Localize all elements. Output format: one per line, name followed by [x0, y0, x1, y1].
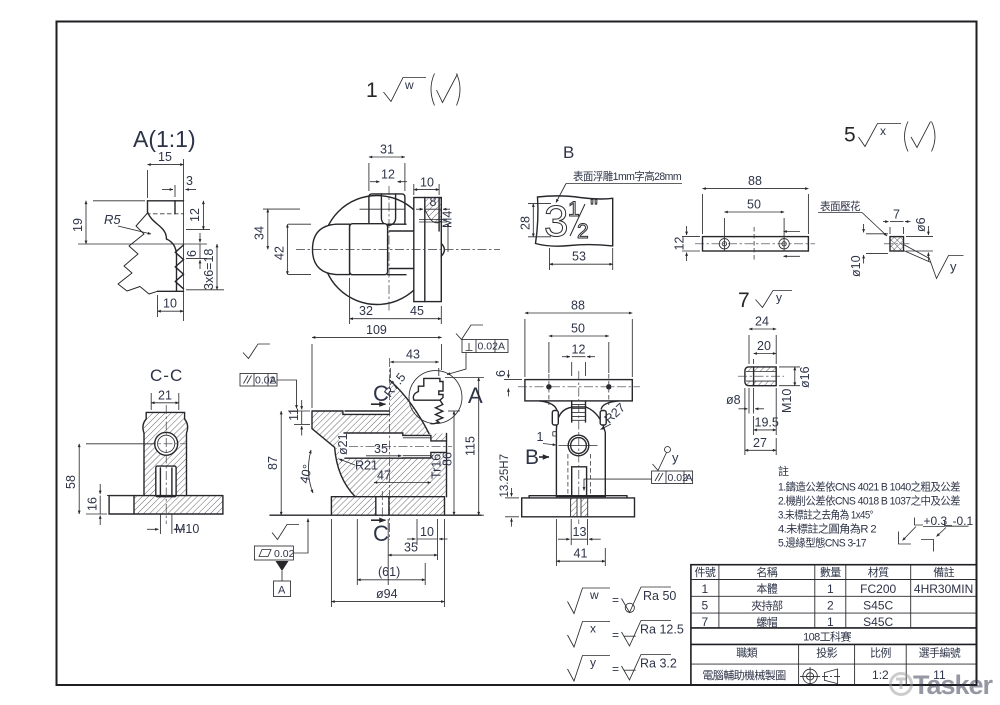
- svg-text:=: =: [612, 628, 619, 642]
- dim 35 bottom: [387, 519, 389, 585]
- svg-text:19.5: 19.5: [755, 416, 779, 430]
- slot: [381, 194, 395, 225]
- right plate: [414, 198, 442, 302]
- svg-text:1: 1: [702, 582, 709, 596]
- flag perpendicular right: [456, 325, 483, 340]
- dim 11: [294, 423, 310, 425]
- svg-text:ø16: ø16: [798, 366, 812, 388]
- svg-text:y: y: [590, 656, 596, 670]
- dim 31: [368, 163, 370, 191]
- dim 42: [288, 223, 311, 225]
- detail circle A: [409, 371, 462, 424]
- part profile: [118, 201, 184, 294]
- flange: [270, 497, 481, 516]
- svg-text:M10: M10: [175, 522, 199, 536]
- svg-text:本體: 本體: [756, 582, 777, 596]
- flange hatch: [134, 496, 223, 514]
- dim 10: [413, 184, 415, 195]
- hatched strips in flange center: [571, 498, 577, 517]
- dim 16: [107, 495, 131, 497]
- svg-text:-0.1: -0.1: [953, 514, 974, 528]
- dim 3: [174, 185, 176, 197]
- outline: [143, 412, 188, 495]
- svg-text:Ra 12.5: Ra 12.5: [640, 623, 684, 637]
- dim 8: [416, 208, 423, 210]
- svg-text:35: 35: [374, 442, 388, 456]
- svg-text:ø6: ø6: [914, 217, 928, 232]
- svg-text:夾持部: 夾持部: [751, 598, 783, 612]
- svg-text:1: 1: [827, 615, 834, 629]
- svg-text:8: 8: [430, 195, 437, 209]
- svg-text:ø94: ø94: [376, 587, 398, 601]
- svg-text:11: 11: [287, 408, 301, 421]
- svg-text:FC200: FC200: [860, 582, 896, 596]
- centerlines: [165, 405, 167, 524]
- side bump: [441, 244, 444, 257]
- dim ø8: [748, 388, 750, 414]
- svg-text:10: 10: [420, 176, 434, 190]
- svg-text:27: 27: [753, 436, 767, 450]
- 35 mid: [366, 455, 402, 457]
- svg-text:5: 5: [844, 124, 856, 147]
- centerline: [296, 249, 500, 251]
- slot: [572, 467, 587, 496]
- svg-text:+0.3: +0.3: [924, 514, 948, 528]
- flag parallel right: [653, 453, 667, 471]
- svg-text:12: 12: [381, 168, 395, 182]
- svg-text:x: x: [590, 622, 596, 636]
- 40 deg: [308, 450, 313, 493]
- dim 12: [186, 229, 210, 231]
- M4 leader lines: [419, 219, 447, 221]
- svg-text:7: 7: [738, 289, 750, 312]
- svg-text:2: 2: [827, 599, 834, 613]
- dim 28: [528, 203, 551, 205]
- dim 43: [389, 368, 391, 378]
- svg-text:(61): (61): [378, 565, 400, 579]
- boss body: [556, 407, 605, 497]
- svg-text:A: A: [498, 341, 505, 353]
- dim 10 bottom: [416, 519, 418, 545]
- svg-text:0.02: 0.02: [478, 341, 499, 353]
- svg-text:12: 12: [188, 208, 202, 222]
- svg-text:86: 86: [441, 452, 455, 466]
- flag parallel left: [243, 344, 270, 359]
- svg-text:y: y: [950, 259, 957, 274]
- bore outline: [344, 433, 447, 458]
- vertical centerline: [578, 371, 580, 524]
- svg-text:3.未標註之去角為 1x45°: 3.未標註之去角為 1x45°: [778, 508, 873, 522]
- dim 12: [682, 236, 700, 238]
- svg-text:88: 88: [748, 174, 762, 188]
- svg-text:24: 24: [755, 315, 769, 329]
- white bore band: [339, 433, 403, 458]
- svg-text:41: 41: [574, 547, 588, 561]
- view arrows: [784, 231, 801, 233]
- hatched upper block: [143, 412, 188, 495]
- dim ø6: [906, 236, 933, 238]
- flange: [522, 498, 635, 517]
- svg-text:1: 1: [827, 582, 834, 596]
- slot centerline: [388, 186, 390, 311]
- svg-text:投影: 投影: [816, 646, 837, 660]
- white circle + slot areas: [155, 432, 178, 455]
- svg-text:6: 6: [185, 250, 199, 257]
- hole left: [719, 239, 729, 249]
- svg-text:S45C: S45C: [863, 615, 893, 629]
- svg-text:註: 註: [778, 465, 789, 478]
- row x: [568, 621, 672, 648]
- svg-text:50: 50: [747, 198, 761, 212]
- svg-text:58: 58: [64, 475, 78, 489]
- svg-text:材質: 材質: [868, 565, 889, 579]
- svg-text:87: 87: [266, 456, 280, 470]
- raised lettering 3 1/2 ": [544, 196, 598, 246]
- dim 41: [555, 519, 557, 566]
- svg-text:42: 42: [273, 246, 287, 260]
- svg-text:Ra 50: Ra 50: [643, 589, 676, 603]
- svg-text:螺帽: 螺帽: [756, 616, 777, 629]
- svg-text:3: 3: [186, 174, 193, 188]
- screw shaft threads: [572, 401, 586, 422]
- leader from flag with down arrow: [584, 479, 652, 490]
- svg-text:w: w: [589, 588, 599, 602]
- svg-text:10: 10: [163, 297, 177, 311]
- svg-text:A: A: [278, 585, 286, 597]
- dim 19.5: [775, 388, 777, 435]
- svg-text:1:2: 1:2: [872, 668, 889, 682]
- svg-text:R5: R5: [104, 212, 121, 227]
- svg-text:ø21: ø21: [336, 433, 350, 455]
- top bar: [525, 380, 632, 401]
- svg-text:職類: 職類: [736, 647, 757, 660]
- svg-text:108工科賽: 108工科賽: [803, 630, 851, 644]
- section line C-C: [389, 358, 391, 540]
- svg-text:4HR30MIN: 4HR30MIN: [914, 582, 973, 596]
- svg-text:R21: R21: [355, 459, 378, 473]
- M4 hatched corner: [425, 198, 442, 223]
- svg-text:數量: 數量: [820, 566, 841, 579]
- dim 24: [748, 335, 750, 364]
- svg-text:表面壓花: 表面壓花: [820, 199, 861, 213]
- notch left: [553, 432, 557, 436]
- svg-text:34: 34: [253, 226, 267, 240]
- svg-text:53: 53: [572, 250, 586, 264]
- dim ø16: [779, 366, 800, 368]
- dim 50: [723, 218, 725, 237]
- svg-text:5: 5: [702, 599, 709, 613]
- hidden slot sides: [567, 454, 569, 496]
- svg-text:電腦輔助機械製圖: 電腦輔助機械製圖: [702, 668, 786, 682]
- svg-text:3x6=18: 3x6=18: [202, 249, 216, 290]
- svg-text:43: 43: [406, 348, 420, 362]
- row y: [568, 655, 672, 682]
- svg-text:88: 88: [571, 299, 585, 313]
- svg-text:7: 7: [702, 615, 709, 629]
- svg-text:13.25H7: 13.25H7: [499, 454, 511, 497]
- C arrows + letters: [371, 403, 386, 405]
- svg-text:Tasker: Tasker: [913, 670, 994, 700]
- tabs: [552, 411, 558, 426]
- hub circles: [568, 435, 589, 456]
- svg-text:B: B: [525, 446, 539, 469]
- top boss: [369, 194, 405, 224]
- dim 87: [288, 410, 310, 412]
- svg-text:M4: M4: [441, 211, 455, 228]
- svg-text:15: 15: [158, 150, 172, 164]
- block: [350, 224, 388, 275]
- flag flatness bottom: [272, 525, 299, 540]
- svg-text:1: 1: [366, 79, 378, 102]
- svg-text:13: 13: [573, 525, 587, 539]
- svg-text:比例: 比例: [870, 646, 891, 660]
- svg-text:'': '': [590, 196, 598, 219]
- svg-text:1: 1: [568, 198, 580, 221]
- svg-text:12: 12: [572, 343, 586, 357]
- row w: [568, 587, 672, 614]
- svg-text:21: 21: [158, 389, 172, 403]
- dim 88: [702, 194, 704, 234]
- dim 34: [263, 208, 300, 210]
- watermark: [891, 670, 994, 700]
- dim 58: [86, 443, 154, 445]
- dim 7: [889, 227, 891, 234]
- svg-text:名稱: 名稱: [756, 565, 777, 579]
- svg-text:45: 45: [410, 304, 424, 318]
- svg-text:12: 12: [673, 237, 687, 251]
- dim 13: [570, 519, 572, 545]
- dim ø10: [866, 233, 888, 235]
- svg-text:16: 16: [86, 497, 100, 511]
- dim 88: [524, 319, 526, 377]
- outline: top block: [312, 411, 390, 497]
- hole centerline: [349, 445, 452, 447]
- projection symbol: [800, 667, 842, 686]
- svg-text:2.機削公差依CNS 4018 B 1037之中及公差: 2.機削公差依CNS 4018 B 1037之中及公差: [778, 494, 961, 508]
- nose stadium: [313, 224, 350, 274]
- dim 21: [150, 393, 152, 410]
- svg-text:C-C: C-C: [150, 366, 183, 385]
- svg-text:20: 20: [757, 339, 771, 353]
- dim 109: [311, 344, 313, 408]
- svg-text:B: B: [563, 143, 574, 162]
- svg-text:x: x: [880, 124, 886, 138]
- svg-text:A(1:1): A(1:1): [133, 126, 196, 152]
- y roughness: [904, 245, 930, 259]
- svg-text:=: =: [612, 662, 619, 676]
- dim 115: [445, 377, 484, 379]
- dims 32 45: [349, 278, 351, 324]
- svg-text:10: 10: [420, 525, 434, 539]
- svg-text:備註: 備註: [933, 566, 954, 579]
- svg-text:y: y: [776, 291, 782, 305]
- svg-text:2: 2: [577, 220, 589, 243]
- svg-text:6: 6: [494, 370, 508, 377]
- dim 86: [448, 410, 460, 412]
- svg-text:C: C: [373, 521, 389, 546]
- svg-text:A: A: [270, 375, 277, 387]
- svg-text:3: 3: [544, 197, 568, 246]
- svg-text:31: 31: [380, 143, 394, 157]
- R75 jaw ramp arc: [390, 380, 430, 434]
- 47: [374, 482, 431, 484]
- dim 13.25H7: [505, 497, 519, 499]
- hatch: flange: [331, 497, 375, 516]
- body circle: [323, 196, 432, 305]
- hatch: upper body down to bore: [312, 381, 447, 441]
- svg-text:w: w: [404, 78, 414, 92]
- fillets bar to boss: [540, 401, 619, 412]
- svg-text:A: A: [468, 383, 483, 408]
- svg-text:19: 19: [71, 218, 85, 232]
- dim 19: [93, 200, 145, 202]
- jaw upper piece: [413, 378, 443, 400]
- dim 20: [753, 359, 755, 364]
- svg-text:選手編號: 選手編號: [919, 646, 961, 660]
- dim 6: [186, 257, 207, 259]
- svg-text:7: 7: [893, 208, 900, 222]
- svg-text:109: 109: [366, 323, 387, 337]
- dim 6: [504, 379, 522, 381]
- dim (61): [356, 519, 358, 585]
- dim 12: [571, 362, 573, 376]
- svg-text:5.邊緣型態CNS 3-17: 5.邊緣型態CNS 3-17: [778, 536, 866, 550]
- M10: [147, 528, 159, 530]
- svg-text:件號: 件號: [694, 566, 715, 579]
- svg-text:47: 47: [377, 469, 391, 483]
- svg-text:1: 1: [537, 430, 544, 444]
- dim 3x6=18: [186, 289, 224, 291]
- svg-text:=: =: [612, 593, 619, 607]
- svg-text:Ra 3.2: Ra 3.2: [640, 657, 677, 671]
- svg-text:S45C: S45C: [863, 599, 893, 613]
- hatch: web below bore: [335, 448, 447, 497]
- dim 10: [157, 295, 159, 317]
- svg-text:A: A: [686, 472, 693, 484]
- Tr16 thread lines: [403, 437, 431, 439]
- svg-text:表面浮雕1mm字高28mm: 表面浮雕1mm字高28mm: [573, 169, 681, 183]
- svg-text:y: y: [672, 450, 679, 465]
- dim 12: [370, 181, 380, 183]
- dim 50: [548, 342, 550, 373]
- jaw plate lines: [388, 224, 414, 275]
- dim ø94: [330, 519, 332, 607]
- svg-text:ø8: ø8: [726, 393, 741, 407]
- plaque outline: [536, 196, 613, 246]
- dim 53: [549, 248, 551, 270]
- svg-text:4.未標註之圓角為R 2: 4.未標註之圓角為R 2: [778, 522, 876, 536]
- svg-text:M10: M10: [780, 389, 794, 413]
- svg-text:1.鑄造公差依CNS 4021 B 1040之粗及公差: 1.鑄造公差依CNS 4021 B 1040之粗及公差: [778, 480, 961, 494]
- svg-text:32: 32: [359, 304, 373, 318]
- web right edge: [446, 434, 448, 497]
- svg-text:35: 35: [404, 541, 418, 555]
- jaw lower serrated piece: [431, 400, 443, 424]
- hole right: [779, 239, 789, 249]
- svg-text:50: 50: [571, 322, 585, 336]
- svg-text:28: 28: [519, 216, 533, 230]
- nut body section: [746, 367, 776, 372]
- svg-text:0.02: 0.02: [274, 548, 295, 560]
- svg-text:115: 115: [464, 436, 478, 456]
- svg-text:ø10: ø10: [849, 255, 863, 277]
- dim 27: [744, 388, 746, 455]
- dim 15: [147, 170, 149, 198]
